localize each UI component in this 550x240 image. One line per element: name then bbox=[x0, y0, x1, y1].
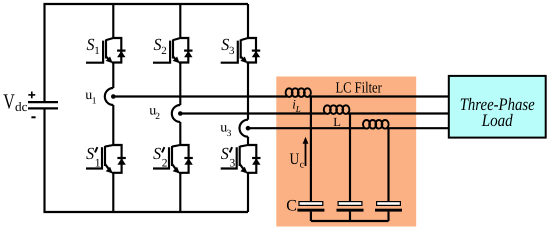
svg-text:3: 3 bbox=[230, 157, 236, 169]
svg-text:1: 1 bbox=[95, 157, 101, 169]
svg-text:V: V bbox=[3, 90, 15, 114]
svg-text:1: 1 bbox=[92, 96, 97, 106]
svg-text:S: S bbox=[221, 144, 229, 163]
svg-text:U: U bbox=[290, 151, 300, 168]
svg-text:2: 2 bbox=[155, 112, 160, 122]
svg-text:S: S bbox=[86, 144, 94, 163]
svg-text:3: 3 bbox=[229, 45, 235, 57]
svg-text:1: 1 bbox=[94, 45, 100, 57]
svg-text:2: 2 bbox=[162, 157, 168, 169]
svg-text:dc: dc bbox=[15, 99, 28, 114]
svg-text:3: 3 bbox=[227, 129, 232, 139]
svg-text:c: c bbox=[300, 160, 305, 171]
svg-text:LC Filter: LC Filter bbox=[336, 79, 383, 96]
svg-text:S: S bbox=[153, 144, 161, 163]
svg-text:C: C bbox=[286, 197, 297, 214]
svg-text:2: 2 bbox=[161, 45, 167, 57]
svg-text:Load: Load bbox=[481, 110, 513, 130]
svg-text:L: L bbox=[333, 115, 341, 129]
svg-text:L: L bbox=[295, 104, 301, 114]
